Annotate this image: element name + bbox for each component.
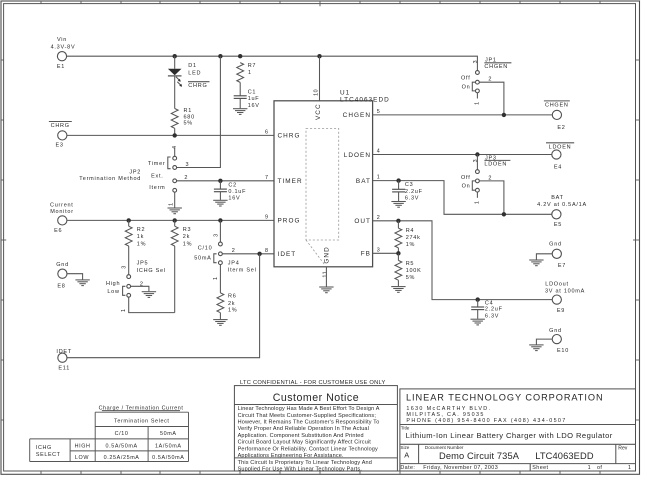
svg-text:Rev: Rev [618, 446, 628, 452]
svg-text:However, It Remains The Custom: However, It Remains The Customer's Respo… [238, 420, 380, 426]
node OUT-R4 junction [396, 219, 400, 223]
terminal E2 CHGEN [544, 101, 570, 131]
svg-text:E6: E6 [54, 228, 62, 234]
svg-text:IDET: IDET [278, 251, 297, 258]
svg-text:1%: 1% [406, 242, 415, 248]
LED D1 [168, 63, 210, 89]
svg-text:FB: FB [361, 251, 371, 258]
svg-text:1: 1 [213, 276, 219, 280]
svg-text:2: 2 [377, 215, 381, 221]
svg-text:MILPITAS, CA. 95035: MILPITAS, CA. 95035 [406, 412, 484, 418]
customer notice body text [238, 406, 380, 459]
svg-text:CHRG: CHRG [278, 133, 301, 140]
svg-text:Monitor: Monitor [50, 209, 74, 215]
node LDOout-C4 junction [476, 297, 480, 301]
svg-text:IDET: IDET [56, 349, 72, 355]
wire D1 anode [174, 56, 176, 69]
svg-text:3: 3 [473, 60, 479, 64]
node BAT-C3 junction [396, 178, 400, 182]
ground C1 [233, 109, 247, 115]
svg-text:Timer: Timer [148, 161, 166, 167]
svg-text:100K: 100K [406, 268, 422, 274]
resistor R6 [217, 293, 237, 314]
svg-text:JP5: JP5 [137, 261, 149, 267]
svg-text:Lithium-Ion Linear Battery Cha: Lithium-Ion Linear Battery Charger with … [406, 431, 613, 440]
customer notice footer text [238, 460, 372, 472]
svg-text:680: 680 [184, 114, 195, 120]
svg-text:Friday, November 07, 2003: Friday, November 07, 2003 [423, 465, 498, 471]
svg-text:ICHG Sel: ICHG Sel [137, 268, 166, 274]
svg-text:Sheet: Sheet [532, 465, 548, 471]
svg-text:Off: Off [461, 175, 471, 181]
title block address [406, 406, 566, 424]
resistor R4 [395, 221, 421, 248]
terminal E10 Gnd [549, 328, 569, 354]
ground E10 [529, 345, 543, 351]
wire IDET to E11 [67, 254, 260, 358]
customer notice divider [234, 404, 397, 406]
svg-text:Document Number: Document Number [425, 445, 464, 450]
capacitor C2 [214, 182, 246, 201]
svg-text:1: 1 [168, 202, 174, 206]
resistor R2 [125, 220, 146, 247]
svg-text:5%: 5% [184, 121, 193, 127]
wire R1 to CHRG net [174, 128, 176, 135]
svg-text:0.5A/50mA: 0.5A/50mA [105, 443, 137, 449]
title block section line 1 [400, 424, 636, 426]
svg-text:ICHG: ICHG [36, 445, 52, 451]
svg-text:50mA: 50mA [194, 256, 211, 262]
wire PROG net [67, 219, 274, 221]
svg-text:Verify Proper And Reliable Ope: Verify Proper And Reliable Operation In … [238, 426, 369, 432]
svg-text:C4: C4 [485, 300, 494, 306]
wire FB net [373, 252, 399, 254]
svg-text:OUT: OUT [354, 218, 371, 225]
node IDET-E11 junction [257, 252, 261, 256]
title block date row [400, 465, 631, 471]
svg-text:R6: R6 [228, 294, 237, 300]
svg-text:1%: 1% [228, 308, 237, 314]
svg-text:R3: R3 [183, 227, 192, 233]
jumper JP2 Termination Method [79, 145, 189, 205]
svg-text:1: 1 [121, 308, 127, 312]
svg-text:3: 3 [473, 159, 479, 163]
svg-text:On: On [462, 183, 471, 189]
svg-text:0.1uF: 0.1uF [228, 189, 246, 195]
svg-text:D1: D1 [188, 63, 197, 69]
node Vin-D1 junction [173, 54, 177, 58]
wire R3 lower lead [174, 246, 176, 313]
terminal E11 IDET [56, 349, 72, 371]
svg-text:C/10: C/10 [198, 246, 213, 252]
svg-text:C2: C2 [228, 182, 237, 188]
svg-text:5%: 5% [406, 275, 415, 281]
border zone ticks bottom [41, 469, 600, 475]
ground R5 [391, 287, 405, 293]
wire Vin rail [67, 56, 478, 70]
svg-text:Application. Component Substit: Application. Component Substitution And … [238, 433, 364, 439]
svg-text:Gnd: Gnd [549, 242, 562, 248]
svg-text:1A/50mA: 1A/50mA [155, 443, 182, 449]
wire JP3 pin2 to BAT net [479, 181, 504, 214]
border zone ticks left [1, 60, 6, 420]
svg-text:LDOout: LDOout [545, 282, 568, 288]
ground U1 GND [319, 287, 333, 293]
svg-text:1%: 1% [183, 241, 192, 247]
node CHGEN junction [502, 113, 506, 117]
svg-text:CHGEN: CHGEN [545, 102, 569, 108]
node Vin-R7 junction [238, 54, 242, 58]
svg-text:Low: Low [107, 289, 119, 295]
svg-text:Iterm Sel: Iterm Sel [228, 268, 257, 274]
svg-text:CHGEN: CHGEN [343, 112, 371, 119]
svg-text:1: 1 [377, 175, 381, 181]
wire JP4 pin3 stub [219, 220, 221, 242]
svg-text:1: 1 [248, 70, 252, 76]
svg-text:3V at 100mA: 3V at 100mA [545, 289, 585, 295]
svg-text:1: 1 [475, 200, 481, 204]
title block size divider [418, 444, 420, 463]
svg-text:6.3V: 6.3V [485, 314, 499, 320]
svg-text:Gnd: Gnd [56, 262, 69, 268]
svg-text:E7: E7 [558, 263, 566, 269]
svg-text:LED: LED [188, 70, 201, 76]
svg-text:Size: Size [400, 445, 409, 450]
svg-text:3: 3 [186, 162, 190, 168]
svg-text:R1: R1 [184, 108, 193, 114]
svg-text:2.2uF: 2.2uF [405, 189, 423, 195]
svg-text:Termination Method: Termination Method [79, 176, 141, 182]
svg-text:VCC: VCC [315, 103, 322, 120]
svg-text:LDOEN: LDOEN [549, 144, 572, 150]
svg-text:Title: Title [401, 426, 410, 431]
terminal E7 Gnd [549, 242, 566, 269]
svg-text:6.3V: 6.3V [405, 195, 419, 201]
ground C2 [213, 200, 227, 206]
wire R5 to ground [397, 280, 399, 286]
table Charge/Termination Current title [99, 405, 184, 411]
terminal E6 Current Monitor [50, 203, 74, 235]
wire C1 to ground [239, 98, 241, 108]
node Vin-JP2 junction [218, 54, 222, 58]
title block section line 3 [400, 463, 636, 465]
svg-text:1%: 1% [137, 241, 146, 247]
terminal E9 LDOout [545, 282, 585, 314]
svg-text:LDOEN: LDOEN [484, 162, 507, 168]
svg-text:274k: 274k [406, 235, 421, 241]
capacitor C4 [471, 300, 503, 320]
svg-text:CHGEN: CHGEN [484, 64, 508, 70]
ground JP2 [168, 208, 182, 214]
wire LDOEN net [373, 154, 552, 156]
node Vin-VCC junction [317, 54, 321, 58]
terminal E8 Gnd [56, 262, 69, 289]
terminal E5 BAT [537, 195, 587, 228]
svg-text:1: 1 [475, 101, 481, 105]
wire C2 stub [219, 181, 221, 189]
svg-text:3: 3 [122, 265, 128, 269]
customer notice divider 2 [234, 457, 397, 459]
svg-text:R2: R2 [137, 227, 146, 233]
svg-text:PROG: PROG [278, 218, 301, 225]
svg-text:PHONE (408) 954-8400 FAX (408: PHONE (408) 954-8400 FAX (408) 434-0507 [406, 418, 566, 424]
ground E8 [75, 280, 89, 286]
wire BAT net [373, 181, 552, 215]
svg-text:11: 11 [322, 271, 328, 278]
svg-text:1: 1 [588, 465, 591, 471]
svg-text:R5: R5 [406, 261, 415, 267]
svg-text:16V: 16V [248, 103, 260, 109]
wire JP5 pin1 to R3 [129, 297, 175, 312]
terminal E1 Vin [51, 37, 76, 70]
svg-text:GND: GND [323, 246, 330, 263]
svg-text:Demo Circuit 735A LTC4063: Demo Circuit 735A LTC4063EDD [439, 451, 594, 461]
svg-text:0.25A/25mA: 0.25A/25mA [104, 455, 140, 461]
svg-text:1: 1 [628, 465, 631, 471]
wire CHRG net [67, 134, 274, 136]
terminal E4 LDOEN [546, 143, 574, 171]
svg-text:Vin: Vin [57, 37, 67, 43]
jumper JP5 ICHG Sel [106, 261, 166, 312]
svg-text:Date:: Date: [400, 465, 415, 471]
node BAT-JP3 junction [502, 212, 506, 216]
svg-text:CHRG: CHRG [188, 83, 207, 89]
svg-text:C/10: C/10 [115, 431, 129, 437]
svg-text:2k: 2k [183, 234, 190, 240]
title block outer box [400, 389, 636, 471]
svg-text:E8: E8 [57, 283, 65, 289]
svg-text:C1: C1 [248, 89, 257, 95]
capacitor C1 [234, 89, 260, 109]
terminal E3 CHRG [49, 122, 72, 149]
svg-text:R4: R4 [406, 228, 415, 234]
svg-text:LTC4063EDD: LTC4063EDD [340, 96, 390, 103]
svg-text:Circuit That Meets Customer-Su: Circuit That Meets Customer-Supplied Spe… [238, 413, 377, 419]
jumper JP4 Iterm Sel [194, 233, 256, 280]
svg-text:LDOEN: LDOEN [344, 152, 371, 159]
op-amp U1 LTC4063EDD body [274, 90, 390, 267]
svg-text:3: 3 [377, 247, 381, 253]
svg-text:0.5A/50mA: 0.5A/50mA [152, 455, 184, 461]
wire JP5 pin2 to ground [131, 286, 149, 291]
title block rev divider [615, 444, 617, 463]
svg-text:Gnd: Gnd [549, 328, 562, 334]
svg-text:1uF: 1uF [248, 96, 260, 102]
svg-text:BAT: BAT [356, 178, 371, 185]
title block section line 2 [400, 443, 636, 445]
wire E7 to ground [536, 254, 552, 260]
svg-text:CHRG: CHRG [51, 123, 70, 129]
svg-text:On: On [462, 85, 471, 91]
svg-text:9: 9 [265, 214, 269, 220]
svg-text:of: of [597, 465, 602, 471]
svg-text:E4: E4 [554, 165, 562, 171]
svg-text:JP2: JP2 [129, 170, 141, 176]
border zone ticks right [633, 60, 640, 420]
svg-text:Circuit Board Layout May Signi: Circuit Board Layout May Significantly A… [238, 440, 372, 446]
capacitor C3 [392, 181, 423, 202]
resistor R7 [237, 63, 256, 83]
svg-text:50mA: 50mA [160, 431, 177, 437]
svg-text:16V: 16V [228, 195, 240, 201]
svg-text:LOW: LOW [75, 455, 89, 461]
ground C4 [471, 319, 485, 325]
svg-text:E9: E9 [557, 308, 565, 314]
svg-text:SELECT: SELECT [36, 452, 61, 458]
wire R6 to ground [219, 313, 221, 320]
wire JP2 pin1 to ground [174, 192, 176, 207]
svg-text:Current: Current [50, 203, 74, 209]
wire R4 to FB [397, 248, 399, 253]
svg-text:2.2uF: 2.2uF [485, 307, 503, 313]
node PROG-R3 junction [173, 218, 177, 222]
svg-text:A: A [404, 451, 409, 460]
node PROG-R2 junction [127, 218, 131, 222]
svg-text:E11: E11 [58, 366, 70, 372]
svg-text:This Circuit Is Proprietary To: This Circuit Is Proprietary To Linear Te… [238, 460, 372, 466]
svg-text:E2: E2 [557, 125, 565, 131]
svg-text:6: 6 [265, 129, 269, 135]
node PROG-JP4 junction [218, 218, 222, 222]
svg-text:3: 3 [214, 233, 220, 237]
table label ICHG SELECT [36, 445, 61, 458]
svg-text:C3: C3 [405, 182, 414, 188]
ground R6 [213, 320, 227, 326]
wire JP4 pin1 to R6 [219, 265, 221, 293]
svg-text:LINEAR TECHNOLOGY CORPORATION: LINEAR TECHNOLOGY CORPORATION [406, 392, 604, 402]
border zone ticks top [41, 1, 600, 6]
svg-text:Iterm: Iterm [149, 185, 165, 191]
svg-text:TIMER: TIMER [278, 178, 303, 185]
svg-text:10: 10 [314, 89, 320, 96]
svg-text:Customer Notice: Customer Notice [273, 392, 359, 404]
wire JP2 pin3 to Vin rail [177, 56, 221, 167]
svg-text:BAT: BAT [551, 195, 564, 201]
resistor R5 [395, 253, 422, 280]
node FB junction [396, 251, 400, 255]
svg-text:Off: Off [461, 76, 471, 82]
resistor R1 [171, 108, 195, 128]
svg-text:Linear Technology Has Made A B: Linear Technology Has Made A Best Effort… [238, 406, 380, 412]
ground JP5 [142, 292, 156, 298]
svg-text:E10: E10 [557, 348, 569, 354]
svg-text:High: High [106, 281, 120, 287]
jumper JP1 CHGEN [461, 58, 511, 105]
wire E8 to ground [67, 274, 83, 280]
wire IDET net [222, 253, 274, 255]
jumper JP3 LDOEN [461, 155, 510, 205]
svg-text:4.2V at 0.5A/1A: 4.2V at 0.5A/1A [537, 202, 587, 208]
wire D1 cathode to R1 [174, 76, 176, 109]
wire R7 to C1 [239, 82, 241, 95]
ground C3 [391, 202, 405, 208]
svg-text:E1: E1 [57, 64, 65, 70]
svg-text:HIGH: HIGH [75, 443, 91, 449]
svg-text:Ext.: Ext. [151, 173, 163, 179]
customer notice box [234, 386, 397, 471]
resistor R3 [171, 220, 192, 247]
svg-text:Termination Select: Termination Select [114, 418, 170, 424]
wire C2 to ground [219, 192, 221, 200]
title block sheet divider [529, 464, 531, 471]
wire VCC stub [319, 56, 321, 101]
node LDOEN-JP3 junction [475, 152, 479, 156]
svg-text:JP4: JP4 [228, 261, 240, 267]
svg-text:4.3V-8V: 4.3V-8V [51, 44, 76, 50]
svg-text:E3: E3 [55, 143, 63, 149]
wire TIMER net [177, 180, 274, 182]
node TIMER-C2 junction [218, 179, 222, 183]
svg-text:5: 5 [377, 109, 381, 115]
svg-text:E5: E5 [554, 222, 562, 228]
node CHRG-R1 junction [173, 133, 177, 137]
svg-text:R7: R7 [248, 63, 257, 69]
wire R2 to JP5 [128, 246, 130, 275]
svg-text:1k: 1k [137, 234, 144, 240]
svg-text:2k: 2k [228, 301, 235, 307]
svg-text:4: 4 [377, 149, 381, 155]
svg-text:LTC CONFIDENTIAL - FOR CUSTOME: LTC CONFIDENTIAL - FOR CUSTOMER USE ONLY [240, 380, 386, 386]
wire CHGEN net [373, 114, 553, 116]
svg-text:8: 8 [265, 248, 269, 254]
wire E10 to ground [536, 339, 552, 344]
wire GND pin stub [325, 267, 327, 287]
svg-text:7: 7 [265, 175, 269, 181]
ground E7 [529, 260, 543, 266]
wire JP1 pin2 to CHGEN net [479, 82, 504, 115]
wire OUT net to LDOout [373, 221, 553, 300]
table Charge/Termination grid [30, 412, 189, 461]
svg-text:Performance Or Reliability. Co: Performance Or Reliability. Contact Line… [238, 446, 378, 452]
U1 exposed pad dashed outline [306, 129, 339, 265]
svg-text:Supplied For Use With Linear T: Supplied For Use With Linear Technology … [238, 466, 363, 472]
